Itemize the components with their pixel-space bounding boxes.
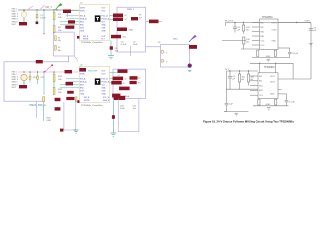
connector J1 pin list text bbox=[12, 8, 19, 26]
wire stubs to IC U2 left pins bbox=[60, 79, 79, 88]
svg-text:OUT1: OUT1 bbox=[272, 22, 277, 24]
fuse F1 inside J2 bbox=[55, 36, 57, 41]
IC U2 pin texts bbox=[259, 76, 275, 97]
resistor R15 bbox=[75, 97, 77, 102]
capacitor C5 on drop bbox=[110, 46, 113, 49]
wire purple cap loop right bbox=[118, 99, 139, 132]
wire IN 24V top rail bbox=[226, 22, 312, 24]
svg-text:IN1: IN1 bbox=[261, 22, 264, 24]
IC U1 TPS2660 pin names left bbox=[80, 8, 87, 33]
wire teal SDA drop bbox=[112, 101, 114, 134]
svg-text:IN1_A: IN1_A bbox=[80, 78, 86, 81]
svg-text:OC1: OC1 bbox=[261, 40, 265, 42]
resistor RIN1 bbox=[243, 23, 245, 26]
jumper pin 1 in option box bbox=[161, 50, 164, 53]
stub U2 right y89.4 bbox=[278, 88, 282, 90]
option box mid right bbox=[161, 45, 190, 68]
svg-text:PWR_1: PWR_1 bbox=[127, 9, 135, 11]
net label below J3 bbox=[19, 85, 27, 88]
svg-text:GND: GND bbox=[102, 31, 107, 33]
net label (maroon) right end of rail bbox=[63, 10, 71, 14]
svg-text:OUT2: OUT2 bbox=[270, 82, 275, 84]
svg-text:EN1: EN1 bbox=[261, 31, 265, 33]
svg-text:SDA: SDA bbox=[129, 28, 134, 31]
svg-text:EN2: EN2 bbox=[80, 88, 84, 90]
net label mid left bbox=[68, 20, 75, 23]
resistor R11 bbox=[53, 72, 62, 82]
IC U1 pin texts bbox=[261, 22, 277, 47]
harness box 2 bbox=[113, 69, 146, 98]
svg-text:0.1uF: 0.1uF bbox=[40, 18, 46, 20]
IC U1 lower-left pin names bbox=[83, 36, 106, 41]
svg-text:0.1uF: 0.1uF bbox=[121, 44, 127, 46]
svg-text:GND: GND bbox=[80, 94, 85, 96]
right figure small texts bbox=[225, 20, 317, 106]
svg-text:EN2: EN2 bbox=[261, 36, 265, 38]
svg-text:SCL: SCL bbox=[102, 85, 106, 87]
net flag VM_1 (green arrow) bbox=[45, 3, 63, 10]
wire into EN pin bbox=[241, 48, 260, 50]
svg-text:VO2: VO2 bbox=[102, 73, 106, 75]
svg-text:VM_1: VM_1 bbox=[45, 5, 52, 9]
port arrow (violet flag) bbox=[190, 35, 197, 41]
svg-text:GND: GND bbox=[266, 56, 271, 58]
ground under teal drop bbox=[110, 133, 116, 136]
stub wires at harness right bbox=[68, 13, 163, 22]
net label right of option box bbox=[189, 45, 197, 49]
wire U2 VO pin to harness bbox=[110, 72, 118, 74]
svg-text:Figure 16. 24-V Source Followe: Figure 16. 24-V Source Follower MUXing C… bbox=[203, 120, 294, 124]
svg-text:IN1B_A: IN1B_A bbox=[80, 81, 87, 84]
harness labels 2 bbox=[113, 77, 124, 81]
net label mid bottom channel bbox=[66, 82, 74, 85]
resistor RIN2 bbox=[239, 71, 241, 74]
wire connector to label bbox=[23, 18, 25, 22]
wire harness to J5 bbox=[146, 46, 161, 48]
svg-text:IN1_A: IN1_A bbox=[80, 15, 86, 18]
IC U1 body outline bbox=[80, 4, 110, 40]
svg-text:VI/VD: VI/VD bbox=[80, 8, 86, 10]
wire U2 OUT to VOUT rail bbox=[278, 78, 311, 80]
net label above pink rail bbox=[65, 70, 73, 73]
gnd arrow under rail U1 bbox=[267, 58, 271, 60]
gnd arrow under rail U2 bbox=[267, 107, 271, 109]
svg-text:ILIM: ILIM bbox=[80, 91, 84, 93]
svg-text:ILIM: ILIM bbox=[80, 28, 84, 30]
IC U2 pin names right bbox=[102, 71, 110, 96]
left gnd rail hook bbox=[224, 111, 226, 113]
wire purple cap drop bbox=[130, 46, 132, 56]
svg-text:SDA: SDA bbox=[125, 95, 130, 98]
wire left end drop bbox=[225, 23, 227, 27]
capacitor C15 on teal drop bbox=[112, 115, 115, 119]
svg-text:10uF: 10uF bbox=[133, 44, 138, 46]
net label lower left bbox=[65, 26, 74, 29]
svg-text:IN1: IN1 bbox=[259, 76, 262, 78]
wire left drop to gnd bbox=[226, 71, 228, 103]
svg-text:TPS2066x: TPS2066x bbox=[264, 67, 276, 69]
IC U2 TI logo bbox=[95, 78, 101, 84]
harness entry labels maroon bbox=[113, 14, 123, 18]
net label at IC left lower pin bbox=[77, 36, 79, 39]
svg-text:IN2_B: IN2_B bbox=[84, 97, 90, 99]
resistor R1 bbox=[53, 10, 62, 20]
svg-text:1 µF: 1 µF bbox=[229, 104, 234, 106]
svg-text:EN1: EN1 bbox=[80, 22, 84, 24]
capacitor C11 bbox=[37, 72, 45, 84]
svg-text:kΩ: kΩ bbox=[251, 79, 254, 81]
svg-text:OC2: OC2 bbox=[261, 45, 265, 47]
svg-text:DNC: DNC bbox=[173, 38, 178, 40]
IC U2 pin names left bbox=[80, 71, 87, 96]
wire U1 OUT right bbox=[278, 22, 311, 24]
fuse F2 inside J2 bbox=[55, 45, 57, 50]
harness small text bbox=[123, 15, 143, 39]
connector J1 circle body bbox=[21, 12, 27, 18]
svg-text:VI/VD: VI/VD bbox=[80, 10, 86, 12]
wire VBAT top rail bbox=[18, 9, 80, 11]
wire stubs U1 to harness labels bbox=[110, 16, 114, 20]
svg-text:R26 DNP: R26 DNP bbox=[88, 71, 98, 73]
svg-text:IN2: IN2 bbox=[259, 81, 262, 83]
svg-text:IN1B_A: IN1B_A bbox=[80, 18, 87, 21]
pink mark end of drop bbox=[43, 33, 45, 34]
svg-text:VO1: VO1 bbox=[102, 8, 106, 10]
drop right end bbox=[292, 63, 294, 79]
resistor ROC1 below U2 bbox=[258, 99, 260, 105]
resistor REN1 bbox=[243, 37, 245, 44]
svg-text:VI/VD: VI/VD bbox=[80, 73, 86, 75]
junction dots pink rail bbox=[23, 71, 54, 72]
svg-text:OC1: OC1 bbox=[259, 95, 263, 97]
wire from rail down column x44 bbox=[43, 10, 45, 33]
wire sense drop bbox=[36, 101, 38, 118]
wire teal below R18 bbox=[43, 102, 45, 121]
capacitor CIN1 bbox=[234, 23, 236, 28]
wire EN2 row bbox=[226, 88, 258, 90]
svg-text:24 V: 24 V bbox=[225, 69, 230, 71]
svg-text:SCL_B: SCL_B bbox=[103, 97, 110, 99]
svg-text:GND: GND bbox=[80, 31, 85, 33]
arrow below J2 bbox=[74, 56, 77, 59]
svg-text:IN2: IN2 bbox=[261, 27, 264, 29]
IC U2 body outline bbox=[80, 66, 110, 103]
svg-text:ILIM: ILIM bbox=[102, 28, 106, 30]
connector J3 circle body bbox=[21, 74, 27, 80]
svg-text:RTRN: RTRN bbox=[83, 39, 89, 41]
wire lower-left 24V rail bbox=[227, 70, 259, 72]
svg-text:0.1 µF: 0.1 µF bbox=[289, 102, 296, 104]
capacitor CIN2 bbox=[229, 71, 231, 77]
svg-text:VO2: VO2 bbox=[102, 10, 106, 12]
svg-text:TPS2066x: TPS2066x bbox=[262, 17, 274, 19]
gnd rail under U1 bbox=[252, 57, 290, 59]
IC U1 TI logo bbox=[95, 15, 101, 21]
second section input rail bbox=[250, 62, 293, 64]
svg-text:ILIM: ILIM bbox=[102, 91, 106, 93]
net label on harness2 top edge bbox=[118, 69, 128, 73]
wire pink stub near J1 bbox=[27, 6, 33, 10]
wire EN1 row bbox=[222, 40, 246, 42]
svg-text:TPS2660x_PowerMux: TPS2660x_PowerMux bbox=[81, 104, 104, 107]
connector J3 pin list text bbox=[12, 71, 19, 89]
switch S1 (pink) bbox=[45, 65, 52, 71]
harness box (purple) right of U1 bbox=[117, 7, 146, 52]
svg-text:PG1B_A: PG1B_A bbox=[102, 81, 110, 84]
svg-text:SDA_B: SDA_B bbox=[103, 99, 110, 102]
resistor R2 bbox=[53, 20, 62, 35]
gnd arrow left bbox=[235, 112, 239, 114]
ground arrow under COUT bbox=[309, 42, 313, 44]
svg-text:EN2: EN2 bbox=[80, 25, 84, 27]
net label right of teal drop bbox=[114, 96, 126, 100]
svg-text:VI/VD: VI/VD bbox=[80, 71, 86, 73]
capacitor C1 bbox=[36, 10, 47, 24]
capacitor C1out right bbox=[278, 47, 290, 49]
capacitor mark at U2 left pin bbox=[77, 100, 79, 103]
wire teal IC bottom drop bbox=[110, 41, 112, 56]
svg-text:PG1_A: PG1_A bbox=[102, 15, 109, 18]
pink stub near C column bbox=[41, 5, 45, 9]
pin stubs left U1 bbox=[252, 22, 260, 24]
sense wire (purple) left loop bbox=[4, 56, 69, 101]
net label below J1 bbox=[19, 22, 27, 25]
ground under U-loop bbox=[74, 130, 79, 133]
svg-text:kΩ: kΩ bbox=[242, 79, 245, 81]
svg-text:10uF: 10uF bbox=[120, 108, 125, 110]
svg-text:VO1: VO1 bbox=[102, 71, 106, 73]
resistor R12 bbox=[53, 82, 63, 95]
svg-text:OUT2: OUT2 bbox=[272, 29, 277, 31]
resistor R18 on sense wire bbox=[43, 97, 45, 102]
net label center under U2 bbox=[66, 97, 74, 100]
resistor ROC2 below U1 bbox=[274, 50, 276, 56]
svg-text:GND: GND bbox=[270, 94, 275, 96]
node junction dots on top rail bbox=[23, 9, 57, 10]
IC block U2 TPS2066x (lower) bbox=[258, 73, 278, 99]
svg-text:EN1: EN1 bbox=[259, 85, 263, 87]
svg-text:EN2: EN2 bbox=[259, 90, 263, 92]
wire stubs U2 to harness labels bbox=[110, 78, 113, 82]
svg-text:GND: GND bbox=[102, 94, 107, 96]
IC U2 lower pins text bbox=[84, 97, 110, 102]
net label on sense wire bbox=[36, 60, 43, 63]
wire purple gnd U-loop bbox=[64, 100, 76, 131]
capacitor text C26 C27 bbox=[120, 105, 137, 110]
svg-text:SCL: SCL bbox=[102, 22, 106, 24]
svg-text:VOUT: VOUT bbox=[305, 20, 312, 22]
svg-text:kΩ: kΩ bbox=[246, 30, 249, 32]
svg-text:OUT1: OUT1 bbox=[270, 76, 275, 78]
pin stubs left U2 bbox=[250, 75, 258, 77]
svg-text:EN1: EN1 bbox=[80, 85, 84, 87]
resistor REN2 bbox=[248, 71, 250, 74]
svg-text:kΩ: kΩ bbox=[246, 42, 249, 44]
wire U2 right to cap bbox=[278, 93, 286, 95]
tiny ground below ball bbox=[188, 71, 192, 72]
gnd rail left section bbox=[224, 111, 248, 113]
resistor ROC2 below U2 bbox=[275, 99, 277, 105]
svg-text:IN (24 V): IN (24 V) bbox=[225, 20, 234, 22]
junction dots right figure bbox=[229, 22, 297, 107]
drop to lower box IN2 bbox=[275, 63, 277, 73]
gnd rail under U2 bbox=[254, 105, 289, 107]
junction ball bottom-right of option box bbox=[188, 64, 192, 68]
drop to lower box IN1 bbox=[259, 63, 261, 73]
resistor ROC1 below U1 bbox=[257, 50, 259, 56]
wire VBAT2 pink rail bbox=[18, 71, 78, 73]
wire stubs to IC left pins bbox=[60, 16, 79, 25]
svg-text:PG1_A: PG1_A bbox=[102, 78, 109, 81]
wire VOUT rail right bbox=[310, 23, 312, 80]
net label left mid bbox=[79, 68, 86, 72]
svg-text:TPS2660x_PowerMux: TPS2660x_PowerMux bbox=[81, 41, 104, 44]
svg-text:GND: GND bbox=[272, 40, 277, 42]
svg-text:GND: GND bbox=[266, 104, 271, 106]
svg-text:DNP: DNP bbox=[47, 120, 52, 122]
net label right of harness bbox=[149, 20, 159, 24]
capacitor COUT plates bbox=[309, 28, 313, 30]
ground (teal) under C5 bbox=[108, 56, 114, 59]
IC block U1 TPS2066x (upper) bbox=[260, 19, 279, 50]
IC U1 pin names right bbox=[102, 8, 110, 33]
net label left of U-loop bbox=[60, 129, 63, 132]
capacitor C10 bbox=[29, 72, 37, 83]
svg-text:1uF: 1uF bbox=[115, 51, 119, 53]
output connector box J2 bbox=[54, 32, 75, 56]
svg-text:0.1 µF: 0.1 µF bbox=[292, 53, 299, 55]
wire drop x44 bottom channel bbox=[43, 72, 45, 95]
svg-text:RTRN: RTRN bbox=[84, 100, 90, 102]
capacitor Cleft plates bbox=[225, 102, 229, 104]
jumper pin 2 in option box bbox=[161, 59, 164, 62]
svg-text:PG1B_A: PG1B_A bbox=[102, 18, 110, 21]
net labels right x55 bbox=[55, 98, 61, 101]
